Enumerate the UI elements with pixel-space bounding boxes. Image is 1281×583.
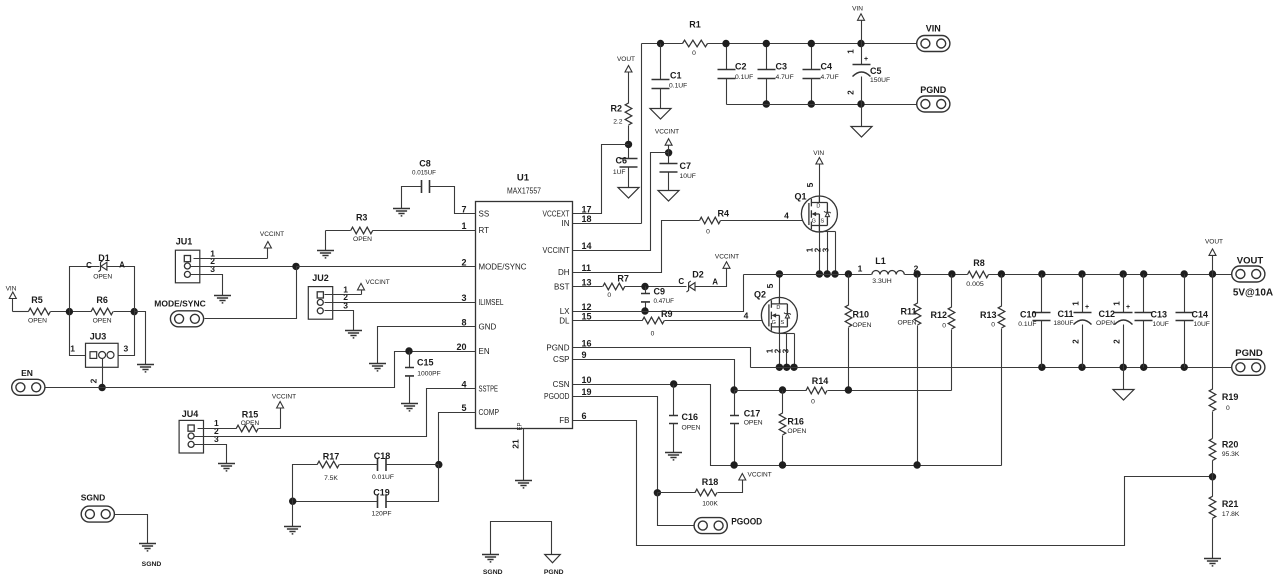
svg-text:C1: C1 [670, 71, 682, 81]
svg-text:DH: DH [558, 268, 570, 277]
svg-text:R14: R14 [812, 376, 829, 386]
svg-text:+: + [1085, 304, 1089, 311]
svg-text:120PF: 120PF [372, 511, 392, 518]
svg-text:G: G [812, 218, 816, 224]
svg-text:A: A [712, 278, 718, 287]
svg-text:20: 20 [456, 342, 466, 352]
svg-text:2: 2 [89, 378, 99, 383]
svg-text:Q2: Q2 [754, 290, 766, 300]
svg-text:VCCINT: VCCINT [260, 231, 284, 238]
svg-text:C12: C12 [1098, 309, 1115, 319]
svg-text:2.2: 2.2 [613, 119, 623, 126]
svg-text:10UF: 10UF [680, 173, 696, 180]
svg-text:D2: D2 [692, 269, 704, 279]
svg-text:A: A [119, 261, 125, 270]
svg-text:D: D [816, 204, 820, 210]
svg-text:PGND: PGND [920, 85, 947, 95]
svg-text:R18: R18 [702, 477, 719, 487]
svg-text:BST: BST [554, 282, 570, 291]
svg-text:0.1UF: 0.1UF [1018, 321, 1036, 328]
svg-text:0: 0 [692, 50, 696, 57]
svg-text:R17: R17 [323, 451, 340, 461]
svg-text:1: 1 [847, 49, 856, 54]
svg-text:C15: C15 [417, 358, 434, 368]
svg-text:VIN: VIN [926, 24, 941, 34]
svg-text:R20: R20 [1222, 440, 1239, 450]
svg-text:S: S [820, 218, 824, 224]
svg-text:G: G [772, 320, 776, 326]
svg-text:0: 0 [607, 292, 611, 299]
svg-text:15: 15 [582, 311, 592, 321]
svg-text:C17: C17 [744, 409, 761, 419]
svg-text:C10: C10 [1020, 310, 1037, 320]
svg-text:1: 1 [70, 344, 75, 354]
svg-text:100K: 100K [702, 500, 718, 507]
svg-text:C2: C2 [735, 62, 747, 72]
svg-text:R3: R3 [356, 213, 368, 223]
svg-text:C9: C9 [654, 287, 666, 297]
svg-text:C4: C4 [821, 62, 833, 72]
svg-text:150UF: 150UF [870, 77, 890, 84]
svg-text:SSTPE: SSTPE [479, 384, 499, 393]
svg-text:JU3: JU3 [90, 332, 107, 342]
svg-text:S: S [780, 320, 784, 326]
svg-text:VCCINT: VCCINT [748, 472, 772, 479]
svg-text:R12: R12 [930, 310, 947, 320]
svg-text:OPEN: OPEN [1096, 320, 1115, 327]
svg-text:12: 12 [582, 302, 592, 312]
svg-text:5V@10A: 5V@10A [1233, 288, 1273, 299]
svg-text:OPEN: OPEN [682, 425, 701, 432]
svg-text:0: 0 [651, 331, 655, 338]
svg-text:SS: SS [479, 209, 490, 218]
svg-text:19: 19 [582, 387, 592, 397]
svg-text:6: 6 [582, 411, 587, 421]
svg-text:EP: EP [518, 422, 524, 430]
svg-text:2: 2 [1072, 339, 1081, 344]
svg-text:GND: GND [479, 322, 497, 331]
svg-text:C13: C13 [1151, 310, 1168, 320]
svg-text:95.3K: 95.3K [1222, 451, 1240, 458]
svg-text:0: 0 [942, 323, 946, 330]
svg-text:VCCINT: VCCINT [655, 129, 679, 136]
svg-text:0.47UF: 0.47UF [654, 298, 675, 305]
svg-text:0.01UF: 0.01UF [372, 474, 394, 481]
svg-text:21: 21 [511, 439, 521, 449]
svg-text:0: 0 [811, 399, 815, 406]
svg-text:ILIMSEL: ILIMSEL [479, 298, 504, 307]
svg-text:10: 10 [582, 375, 592, 385]
svg-text:+: + [1126, 304, 1130, 311]
svg-text:VOUT: VOUT [617, 56, 635, 63]
svg-text:4: 4 [744, 311, 749, 321]
svg-text:R19: R19 [1222, 392, 1239, 402]
svg-text:DL: DL [559, 316, 570, 325]
svg-text:VOUT: VOUT [1205, 239, 1223, 246]
svg-text:180UF: 180UF [1053, 320, 1073, 327]
svg-text:FB: FB [559, 416, 569, 425]
svg-text:1UF: 1UF [613, 169, 626, 176]
svg-text:COMP: COMP [479, 408, 500, 417]
svg-text:+: + [864, 56, 868, 63]
svg-text:VCCEXT: VCCEXT [543, 209, 570, 218]
svg-text:R5: R5 [31, 295, 43, 305]
svg-text:L1: L1 [875, 256, 886, 266]
svg-text:4.7UF: 4.7UF [821, 74, 839, 81]
svg-text:R8: R8 [973, 258, 985, 268]
svg-text:8: 8 [461, 317, 466, 327]
svg-text:C6: C6 [615, 156, 627, 166]
svg-text:5: 5 [461, 403, 466, 413]
svg-text:VCCINT: VCCINT [272, 394, 296, 401]
svg-text:5: 5 [805, 182, 815, 187]
svg-text:18: 18 [582, 214, 592, 224]
svg-text:VIN: VIN [813, 150, 824, 157]
svg-text:R13: R13 [980, 310, 997, 320]
svg-text:R1: R1 [689, 20, 701, 30]
svg-text:1: 1 [1113, 301, 1122, 306]
svg-text:1000PF: 1000PF [417, 371, 440, 378]
svg-text:C11: C11 [1057, 309, 1073, 319]
svg-text:4: 4 [461, 379, 466, 389]
svg-text:C14: C14 [1192, 310, 1209, 320]
svg-text:3: 3 [782, 348, 791, 353]
svg-text:0: 0 [706, 229, 710, 236]
svg-text:9: 9 [582, 350, 587, 360]
svg-text:13: 13 [582, 277, 592, 287]
svg-text:R7: R7 [617, 274, 629, 284]
svg-text:5: 5 [765, 283, 775, 288]
svg-text:3: 3 [124, 344, 129, 354]
svg-text:17.8K: 17.8K [1222, 511, 1240, 518]
svg-text:R9: R9 [661, 309, 673, 319]
svg-text:C: C [678, 277, 684, 286]
svg-text:RT: RT [479, 226, 490, 235]
svg-text:OPEN: OPEN [853, 322, 872, 329]
svg-text:EN: EN [479, 347, 490, 356]
svg-text:LX: LX [560, 307, 570, 316]
svg-text:4.7UF: 4.7UF [776, 74, 794, 81]
svg-text:C3: C3 [776, 62, 788, 72]
svg-text:OPEN: OPEN [241, 420, 260, 427]
svg-text:PGOOD: PGOOD [731, 517, 762, 527]
svg-text:C19: C19 [373, 488, 390, 498]
svg-text:16: 16 [582, 338, 592, 348]
svg-text:OPEN: OPEN [744, 420, 763, 427]
svg-text:0.1UF: 0.1UF [669, 83, 687, 90]
svg-text:OPEN: OPEN [898, 320, 917, 327]
svg-text:D: D [776, 305, 780, 311]
svg-text:VIN: VIN [6, 286, 17, 293]
svg-text:C18: C18 [374, 451, 391, 461]
svg-text:R4: R4 [718, 209, 730, 219]
svg-text:OPEN: OPEN [787, 428, 806, 435]
svg-text:2: 2 [847, 90, 856, 95]
svg-text:R10: R10 [853, 310, 870, 320]
svg-text:SGND: SGND [483, 569, 503, 576]
svg-text:SGND: SGND [81, 493, 106, 503]
svg-text:17: 17 [582, 204, 592, 214]
svg-text:CSN: CSN [553, 380, 570, 389]
svg-text:MODE/SYNC: MODE/SYNC [479, 262, 527, 271]
svg-text:VCCINT: VCCINT [543, 246, 570, 255]
svg-text:OPEN: OPEN [93, 318, 112, 325]
svg-text:4: 4 [784, 210, 789, 220]
svg-text:R15: R15 [242, 409, 259, 419]
svg-text:3: 3 [822, 247, 831, 252]
svg-text:JU1: JU1 [176, 237, 193, 247]
svg-text:SGND: SGND [142, 561, 162, 568]
svg-text:MAX17557: MAX17557 [507, 187, 541, 196]
svg-text:0.015UF: 0.015UF [412, 170, 436, 177]
svg-text:3: 3 [461, 293, 466, 303]
svg-text:PGND: PGND [546, 343, 569, 352]
svg-text:JU2: JU2 [312, 273, 329, 283]
svg-text:R6: R6 [96, 295, 108, 305]
svg-text:R2: R2 [610, 104, 622, 114]
svg-text:PGND: PGND [544, 569, 564, 576]
svg-text:3: 3 [214, 434, 219, 444]
svg-text:3: 3 [210, 264, 215, 274]
svg-text:C16: C16 [682, 412, 699, 422]
svg-text:R16: R16 [787, 417, 804, 427]
svg-text:10UF: 10UF [1153, 321, 1169, 328]
svg-text:U1: U1 [517, 173, 530, 184]
svg-text:1: 1 [1072, 301, 1081, 306]
svg-text:C5: C5 [870, 66, 882, 76]
svg-text:3.3UH: 3.3UH [872, 278, 892, 285]
svg-text:Q1: Q1 [794, 192, 806, 202]
svg-text:OPEN: OPEN [353, 236, 372, 243]
svg-text:7: 7 [461, 204, 466, 214]
svg-text:1: 1 [461, 221, 466, 231]
svg-text:7.5K: 7.5K [324, 475, 338, 482]
svg-text:PGOOD: PGOOD [544, 392, 570, 401]
svg-text:CSP: CSP [553, 355, 569, 364]
svg-text:C: C [86, 261, 92, 270]
svg-text:PGND: PGND [1235, 348, 1263, 359]
svg-text:IN: IN [562, 219, 570, 228]
svg-text:R21: R21 [1222, 499, 1239, 509]
svg-text:EN: EN [21, 368, 33, 378]
svg-text:0.005: 0.005 [966, 281, 984, 288]
svg-text:2: 2 [461, 257, 466, 267]
svg-text:C7: C7 [680, 161, 692, 171]
svg-text:0: 0 [991, 322, 995, 329]
svg-text:OPEN: OPEN [93, 274, 112, 281]
svg-text:MODE/SYNC: MODE/SYNC [154, 299, 205, 309]
svg-text:JU4: JU4 [182, 409, 199, 419]
svg-text:VCCINT: VCCINT [715, 254, 739, 261]
svg-text:D1: D1 [98, 253, 110, 263]
svg-text:VOUT: VOUT [1237, 256, 1264, 267]
svg-text:1: 1 [858, 263, 863, 273]
svg-text:VCCINT: VCCINT [366, 279, 390, 286]
svg-text:11: 11 [582, 263, 592, 273]
svg-text:R11: R11 [900, 307, 916, 317]
svg-text:VIN: VIN [852, 6, 863, 13]
svg-text:10UF: 10UF [1194, 321, 1210, 328]
svg-text:0: 0 [1226, 405, 1230, 412]
svg-text:2: 2 [1113, 339, 1122, 344]
svg-text:14: 14 [582, 241, 592, 251]
svg-text:C8: C8 [419, 159, 431, 169]
svg-text:0.1UF: 0.1UF [735, 74, 753, 81]
svg-text:OPEN: OPEN [28, 318, 47, 325]
